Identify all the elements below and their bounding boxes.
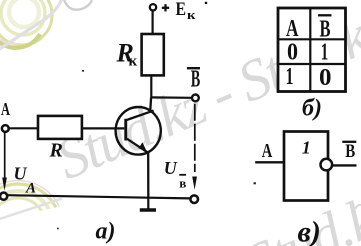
- ground: [140, 198, 156, 210]
- svg-text:в): в): [298, 216, 321, 246]
- label UA: [14, 164, 37, 197]
- gate input wire: [255, 161, 284, 163]
- label B-bar: [187, 66, 200, 92]
- label R: [49, 140, 63, 162]
- label UB: [164, 158, 187, 191]
- table cell 1: [321, 39, 329, 65]
- wire Ek to Rk: [152, 11, 154, 35]
- svg-text:R: R: [49, 140, 63, 162]
- label +Ek: [162, 0, 196, 22]
- transistor VT1: [116, 97, 161, 197]
- table header A: [286, 16, 299, 42]
- gate label B-bar: [342, 141, 356, 162]
- terminal A input: [2, 125, 9, 132]
- svg-text:B: B: [191, 66, 201, 92]
- wire A terminal to R: [9, 127, 38, 129]
- svg-text:1: 1: [321, 39, 329, 65]
- svg-text:A: A: [262, 140, 273, 162]
- svg-text:0: 0: [319, 65, 332, 91]
- table cell 0: [287, 39, 298, 65]
- truth table grid lines: [278, 8, 346, 92]
- terminal +Ek: [150, 4, 156, 10]
- resistor Rk: [142, 34, 164, 75]
- table header B-bar: [318, 15, 332, 42]
- terminal B-bar output: [192, 95, 199, 102]
- resistor R: [38, 116, 82, 139]
- gate output wire: [332, 164, 356, 166]
- svg-text:1: 1: [302, 138, 311, 158]
- table cell 0: [319, 65, 332, 91]
- voltage arrow UB dashed: [192, 104, 197, 190]
- wire Rk to collector node: [150, 75, 152, 97]
- specks: [57, 2, 361, 230]
- svg-text:б): б): [302, 95, 322, 121]
- svg-text:а): а): [96, 218, 116, 244]
- table cell 1: [286, 64, 294, 90]
- wire bottom rail: [7, 195, 190, 198]
- label Rk: [116, 39, 138, 70]
- svg-text:к: к: [129, 54, 138, 70]
- svg-text:A: A: [1, 99, 10, 119]
- svg-text:A: A: [25, 181, 36, 197]
- voltage arrow UA: [2, 133, 7, 191]
- logic gate NOT box: [284, 132, 328, 201]
- svg-text:E: E: [176, 0, 187, 20]
- gate inversion bubble: [321, 159, 333, 171]
- svg-text:B: B: [345, 141, 355, 162]
- wire base to R: [82, 127, 124, 129]
- wire collector node to output terminal: [151, 96, 192, 99]
- terminal bottom right: [190, 195, 198, 203]
- terminal bottom left: [0, 193, 7, 200]
- label b): [302, 95, 322, 121]
- svg-text:U: U: [164, 158, 178, 178]
- svg-text:0: 0: [287, 39, 298, 65]
- label A input: [1, 99, 10, 119]
- svg-text:1: 1: [286, 64, 294, 90]
- svg-text:A: A: [286, 16, 299, 42]
- gate label 1: [302, 138, 311, 158]
- svg-text:в: в: [179, 176, 186, 191]
- svg-text:к: к: [187, 7, 196, 22]
- gate label A: [262, 140, 273, 162]
- label v): [298, 216, 321, 246]
- label a): [96, 218, 116, 244]
- truth table outer box: [278, 8, 346, 92]
